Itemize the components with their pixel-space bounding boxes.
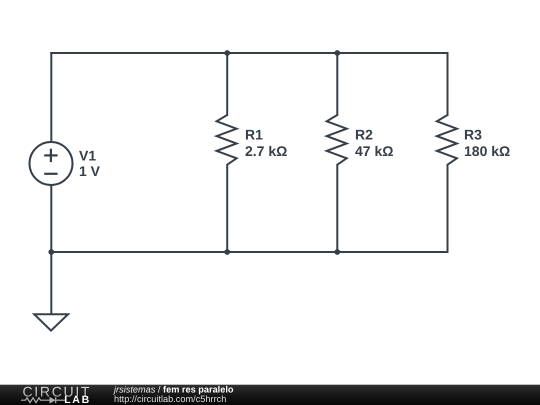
wire top horizontal: [51, 52, 447, 54]
wire R1 lower lead: [226, 165, 228, 252]
svg-text:R2: R2: [355, 127, 373, 143]
svg-text:V1: V1: [79, 148, 96, 164]
wire R3 upper lead: [447, 53, 449, 115]
ground: [34, 314, 68, 330]
svg-text:180 kΩ: 180 kΩ: [464, 143, 510, 159]
junction dot top R1: [224, 50, 230, 56]
resistor R2: [327, 115, 347, 165]
resistor R3: [437, 115, 457, 165]
CircuitLab logo waveform (resistor + diode): [21, 397, 66, 403]
wire R2 upper lead: [336, 53, 338, 115]
wire R1 upper lead: [226, 53, 228, 115]
wire left vertical upper (top wire to V1 top): [50, 53, 52, 142]
wire R2 lower lead: [336, 165, 338, 252]
junction dot top R2: [334, 50, 340, 56]
svg-text:R3: R3: [464, 127, 482, 143]
wire left vertical lower (V1 bottom to bottom wire): [50, 185, 52, 252]
wire ground stem: [50, 252, 52, 314]
svg-text:1 V: 1 V: [79, 163, 101, 179]
junction dot bottom R2: [334, 249, 340, 255]
wire R3 lower lead: [447, 165, 449, 252]
svg-text:2.7 kΩ: 2.7 kΩ: [245, 143, 287, 159]
resistor R1: [217, 115, 237, 165]
voltage source V1: [30, 142, 73, 185]
wire bottom horizontal: [51, 251, 447, 253]
junction dot bottom R1: [224, 249, 230, 255]
svg-text:R1: R1: [245, 127, 263, 143]
svg-text:47 kΩ: 47 kΩ: [355, 143, 393, 159]
svg-text:LAB: LAB: [64, 394, 91, 405]
junction dot bottom left (V1/ground node): [48, 249, 54, 255]
svg-text:http://circuitlab.com/c5hrrch: http://circuitlab.com/c5hrrch: [114, 394, 226, 404]
